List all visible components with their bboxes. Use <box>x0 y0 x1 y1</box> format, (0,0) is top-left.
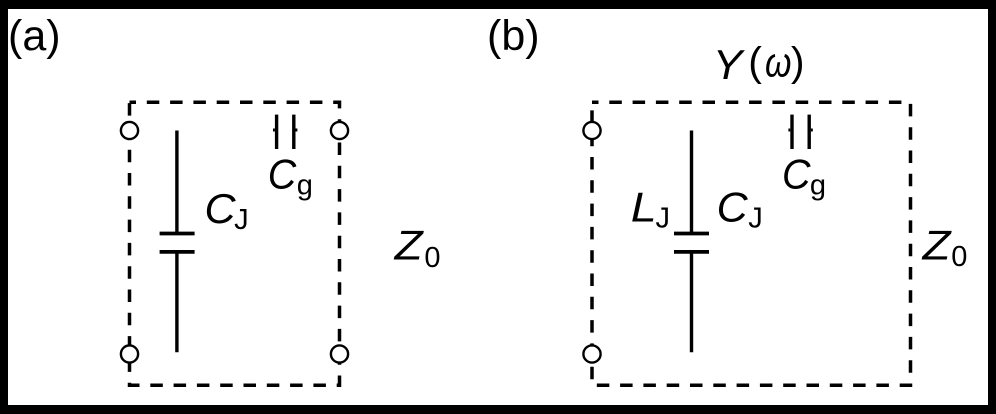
svg-text:): ) <box>791 39 805 85</box>
svg-text:ω: ω <box>765 39 791 86</box>
svg-text:Y: Y <box>713 42 746 89</box>
svg-text:C: C <box>268 150 297 197</box>
svg-text:J: J <box>748 203 763 235</box>
svg-text:0: 0 <box>424 242 440 274</box>
svg-text:(b): (b) <box>487 12 540 60</box>
svg-text:(: ( <box>748 39 762 85</box>
svg-text:(a): (a) <box>8 12 61 60</box>
svg-text:J: J <box>234 204 249 236</box>
svg-text:g: g <box>297 169 313 201</box>
svg-text:0: 0 <box>951 241 967 273</box>
svg-text:Z: Z <box>394 222 425 269</box>
svg-text:C: C <box>205 186 236 232</box>
svg-text:g: g <box>810 169 826 201</box>
svg-text:J: J <box>656 203 671 235</box>
svg-text:L: L <box>631 185 657 231</box>
svg-text:Z: Z <box>921 222 952 269</box>
svg-text:C: C <box>717 185 748 231</box>
svg-text:C: C <box>782 150 811 197</box>
